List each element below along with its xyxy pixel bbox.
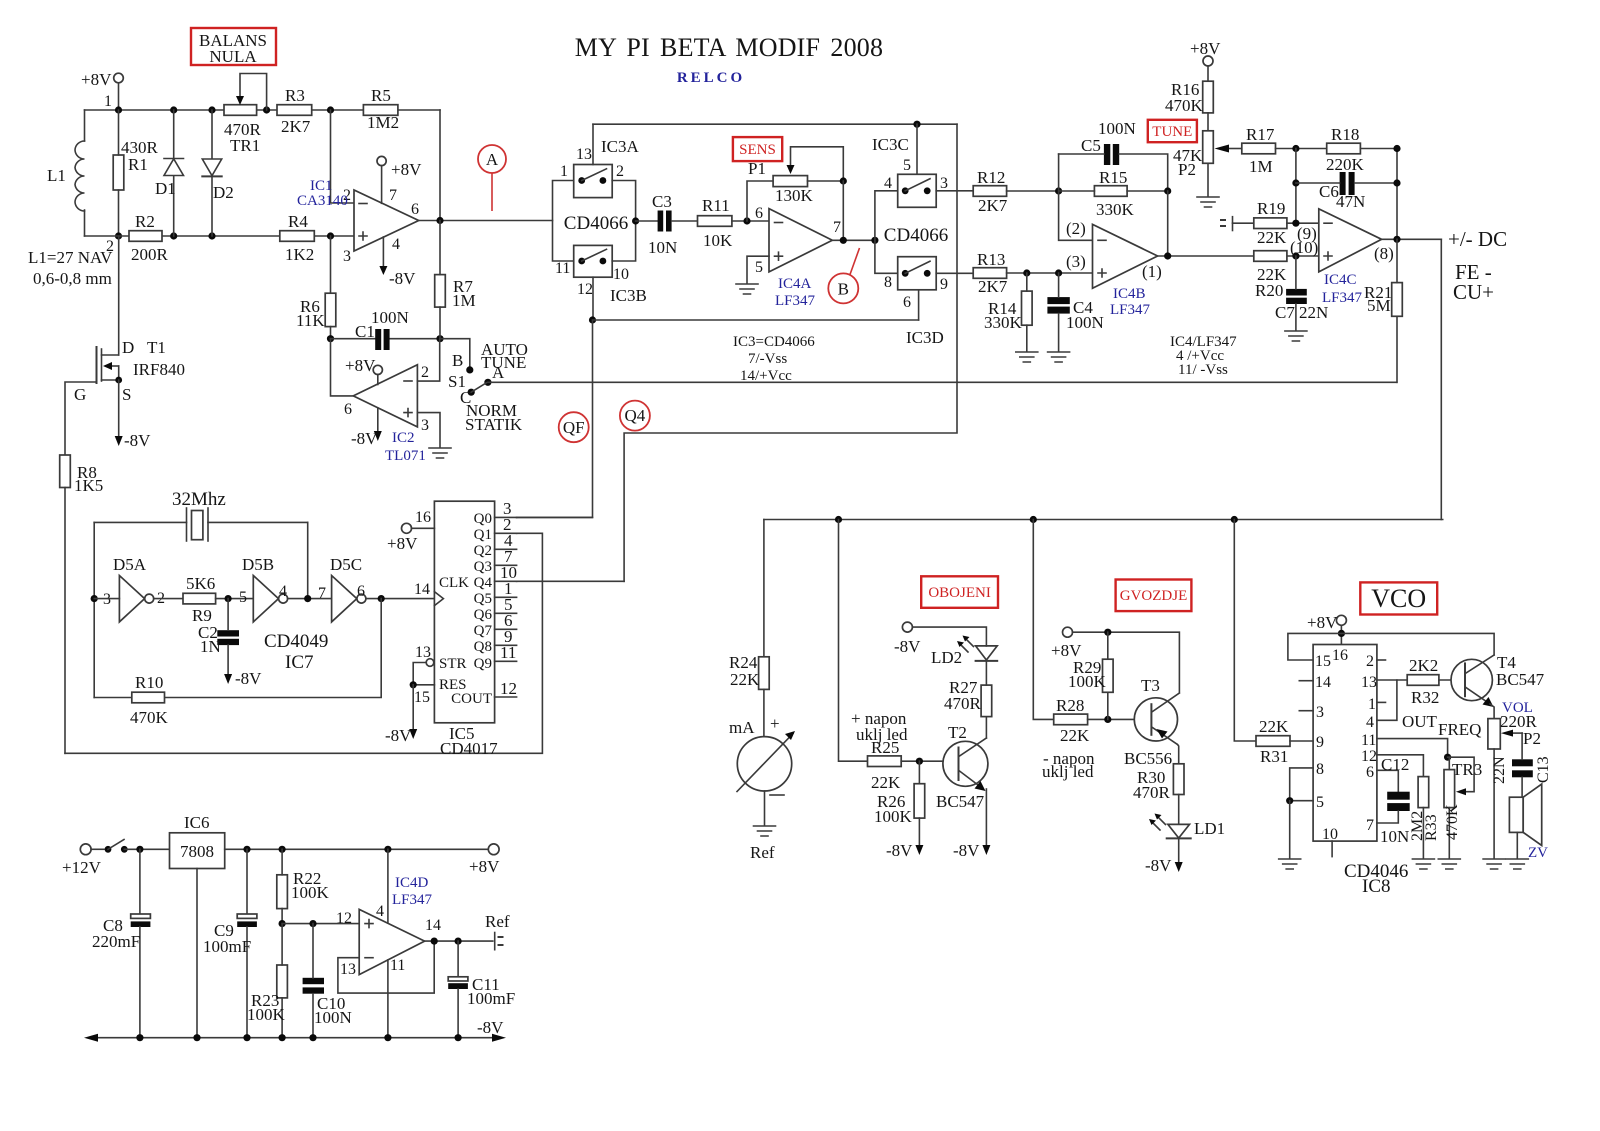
D5A out wire	[154, 598, 183, 600]
junction top bus at IC3C pin5	[913, 121, 920, 128]
wire node2 row y=236	[85, 235, 355, 237]
svg-text:STATIK: STATIK	[465, 415, 523, 434]
capacitor C2	[217, 630, 239, 636]
wire to C3	[636, 220, 658, 222]
wire C1 row	[331, 338, 441, 340]
svg-text:R32: R32	[1411, 688, 1439, 707]
junction R10 feedback	[378, 595, 385, 602]
IC2 pin2 wire	[417, 339, 439, 381]
svg-text:2: 2	[421, 364, 429, 381]
wire crystal right drop	[307, 522, 309, 598]
svg-text:220mF: 220mF	[92, 932, 140, 951]
svg-text:IC8: IC8	[1362, 876, 1391, 897]
svg-text:22K: 22K	[1259, 717, 1289, 736]
svg-text:100N: 100N	[1098, 119, 1136, 138]
svg-text:1M2: 1M2	[367, 113, 399, 132]
wire P1 to IC4A output	[842, 181, 844, 240]
IC1 +8V supply	[377, 156, 386, 165]
svg-text:12: 12	[500, 679, 517, 698]
node B red stem	[850, 248, 860, 275]
svg-text:Q0: Q0	[474, 511, 492, 527]
svg-text:IC1: IC1	[310, 178, 333, 194]
IC4C plus	[1324, 252, 1332, 260]
svg-text:R33: R33	[1423, 814, 1440, 841]
wire IC3 right bracket	[612, 181, 635, 262]
potentiometer P2 (tune)	[1203, 131, 1214, 164]
rail junction pin11	[384, 1034, 391, 1041]
svg-text:22K: 22K	[1060, 726, 1090, 745]
node B circle	[828, 273, 858, 303]
svg-text:220K: 220K	[1326, 155, 1365, 174]
IC5 output pin names	[451, 511, 492, 707]
junction node2 at D2	[208, 232, 215, 239]
junction feedback/output	[431, 938, 438, 945]
wire Q0 control bus y=320	[593, 319, 919, 321]
svg-text:SENS: SENS	[739, 142, 776, 158]
IC5 output stubs	[495, 517, 517, 697]
junction R15/C5 right	[1164, 187, 1171, 194]
svg-text:470R: 470R	[1133, 783, 1171, 802]
svg-text:4: 4	[884, 175, 892, 192]
junction R4/pin3/R6	[327, 232, 334, 239]
R27 to LED	[985, 661, 987, 685]
svg-text:CD4049: CD4049	[264, 631, 328, 652]
svg-text:1K2: 1K2	[285, 245, 314, 264]
svg-text:CA3140: CA3140	[297, 193, 348, 209]
svg-text:-8V: -8V	[351, 429, 378, 448]
svg-text:R28: R28	[1056, 696, 1084, 715]
svg-text:10N: 10N	[1380, 827, 1409, 846]
svg-text:470K: 470K	[130, 708, 169, 727]
wire R28 to base	[1088, 718, 1151, 720]
svg-text:IC4D: IC4D	[395, 875, 429, 891]
IC4D output wire	[425, 940, 493, 942]
svg-text:TR3: TR3	[1452, 760, 1482, 779]
svg-text:Ref: Ref	[750, 843, 775, 862]
junction GVOZDJE branch	[1030, 516, 1037, 523]
+8V terminal gvozdje	[1063, 627, 1073, 637]
svg-text:12: 12	[1361, 748, 1377, 765]
svg-text:15: 15	[1315, 653, 1331, 670]
svg-text:uklj led: uklj led	[1042, 762, 1094, 781]
svg-text:100mF: 100mF	[467, 989, 515, 1008]
wire +8V to pin15	[1288, 633, 1342, 660]
svg-text:2K2: 2K2	[1409, 656, 1438, 675]
svg-text:Q9: Q9	[474, 656, 492, 672]
junction R28/R29/base	[1104, 716, 1111, 723]
junction C4 tap	[1055, 269, 1062, 276]
svg-text:11: 11	[500, 643, 516, 662]
svg-text:9: 9	[940, 276, 948, 293]
svg-text:RES: RES	[439, 677, 467, 693]
ground below C7	[1285, 331, 1307, 341]
svg-text:5M: 5M	[1367, 296, 1391, 315]
wire main lower bus y=519.5	[764, 519, 1443, 521]
wire top control bus y=124	[593, 123, 957, 125]
svg-text:100N: 100N	[314, 1008, 352, 1027]
wire right frame down (Q4 net)	[624, 124, 957, 581]
junction pin10/C7	[1292, 252, 1299, 259]
resistor R12	[973, 186, 1006, 197]
svg-text:15: 15	[414, 689, 430, 706]
svg-text:+8V: +8V	[391, 160, 422, 179]
svg-text:22K: 22K	[1257, 228, 1287, 247]
C5 wires	[1059, 154, 1168, 191]
pin13 wire to R32	[1377, 679, 1407, 681]
svg-text:IC6: IC6	[184, 813, 210, 832]
svg-text:IC3=CD4066: IC3=CD4066	[733, 334, 815, 350]
svg-text:LD2: LD2	[931, 648, 962, 667]
svg-text:6: 6	[755, 205, 763, 222]
power switch	[91, 840, 128, 853]
capacitor C5	[1104, 144, 1110, 165]
TR3 wiper loop	[1448, 757, 1475, 792]
IC5 +8V terminal	[402, 523, 412, 533]
junction +8V node	[1338, 630, 1345, 637]
svg-text:Q4: Q4	[474, 575, 493, 591]
wire R32 to T4 base	[1439, 679, 1464, 681]
IC4C output wire	[1382, 238, 1442, 240]
ground below R14	[1016, 352, 1038, 362]
wire GVOZDJE branch down	[1033, 520, 1053, 720]
svg-text:13: 13	[576, 146, 592, 163]
svg-text:+8V: +8V	[469, 857, 500, 876]
svg-text:D1: D1	[155, 179, 176, 198]
resistor R6	[325, 293, 336, 326]
svg-text:6: 6	[344, 401, 352, 418]
IC2 -8V	[377, 408, 379, 433]
C2 to -8V arrow	[224, 674, 232, 684]
svg-text:MY PI BETA MODIF 2008: MY PI BETA MODIF 2008	[575, 33, 883, 62]
svg-text:100K: 100K	[247, 1005, 286, 1024]
svg-text:LD1: LD1	[1194, 819, 1225, 838]
svg-text:22N: 22N	[1491, 756, 1508, 784]
svg-text:+/- DC: +/- DC	[1448, 227, 1507, 251]
junction C8	[136, 846, 143, 853]
svg-text:+8V: +8V	[1307, 613, 1338, 632]
node A red stem	[491, 173, 493, 211]
rail junction C10	[309, 1034, 316, 1041]
svg-text:R12: R12	[977, 168, 1005, 187]
svg-text:5: 5	[1316, 794, 1324, 811]
svg-text:8: 8	[884, 274, 892, 291]
op-amp IC1	[354, 190, 419, 251]
IC4D plus	[365, 920, 373, 928]
VOL wiper	[1511, 732, 1522, 734]
svg-text:OUT: OUT	[1402, 712, 1438, 731]
svg-text:Q7: Q7	[474, 623, 493, 639]
svg-text:12: 12	[577, 281, 593, 298]
wire top rail y=110	[85, 109, 441, 111]
junction D5A input	[91, 595, 98, 602]
svg-text:(1): (1)	[1142, 262, 1162, 281]
svg-text:-8V: -8V	[886, 841, 913, 860]
IC5 STR pin	[426, 659, 434, 667]
junction output node	[436, 217, 443, 224]
capacitor C4	[1047, 297, 1069, 304]
resistor R5	[363, 105, 398, 116]
svg-text:R20: R20	[1255, 281, 1283, 300]
svg-text:uklj led: uklj led	[856, 725, 908, 744]
resistor R31	[1256, 736, 1290, 747]
7808 ground leg	[196, 869, 198, 1038]
svg-text:L1=27 NAV: L1=27 NAV	[28, 248, 113, 267]
svg-text:C3: C3	[652, 192, 672, 211]
svg-text:12: 12	[336, 910, 352, 927]
junction C6 right	[1393, 179, 1400, 186]
junction output/R21	[1393, 236, 1400, 243]
regulator IC6 7808	[170, 833, 225, 869]
svg-text:R11: R11	[702, 196, 730, 215]
svg-text:IRF840: IRF840	[133, 360, 185, 379]
capacitor C1	[375, 329, 381, 350]
capacitor C3	[658, 211, 664, 232]
P2 ground	[1207, 163, 1209, 196]
IC8 CD4046 box	[1313, 645, 1377, 842]
wire R24 to meter	[763, 689, 765, 736]
node A circle	[478, 145, 506, 173]
svg-text:4: 4	[1366, 714, 1374, 731]
svg-text:TL071: TL071	[385, 448, 426, 464]
svg-text:FREQ: FREQ	[1438, 720, 1481, 739]
capacitor C6	[1340, 172, 1346, 195]
IC3B pin12 wire down	[592, 277, 594, 320]
svg-text:2: 2	[1366, 653, 1374, 670]
pin11 FREQ wire	[1377, 739, 1448, 758]
svg-text:10: 10	[1322, 826, 1338, 843]
junction top rail at R1	[115, 106, 122, 113]
wire IC4B inverting node vertical	[1059, 154, 1093, 240]
junction OBOJENI branch	[835, 516, 842, 523]
wire Q1 to T1 gate chain	[65, 533, 542, 753]
IC1 plus sign	[359, 232, 367, 240]
meter mA	[737, 731, 795, 792]
pin12 wire to R33	[1377, 755, 1424, 777]
ground at IC4A pin5	[736, 284, 758, 294]
svg-text:COUT: COUT	[451, 691, 492, 707]
rail junction C11	[455, 1034, 462, 1041]
wire D5C out to CLK	[366, 598, 435, 600]
junction IC4D pin4	[384, 846, 391, 853]
svg-text:LF347: LF347	[775, 293, 816, 309]
pot bottom to ground	[1493, 749, 1495, 858]
op-amp IC4A	[769, 209, 832, 272]
wire pin2 from node R3/R5 down	[331, 110, 355, 203]
svg-text:C13: C13	[1535, 756, 1552, 783]
svg-text:IC4C: IC4C	[1324, 272, 1357, 288]
rail junction C9	[243, 1034, 250, 1041]
IC8 stub pin14	[1299, 680, 1313, 682]
LD1 to -8V	[1178, 838, 1180, 864]
junction R14 tap	[1023, 269, 1030, 276]
svg-text:Q4: Q4	[625, 406, 646, 425]
wire S1-A long net to R21	[488, 381, 1397, 383]
wire C1 node to S1 B contact	[440, 339, 470, 367]
inductor L1	[75, 110, 85, 236]
IC2 minus sign	[404, 380, 412, 382]
svg-text:9: 9	[1316, 734, 1324, 751]
svg-text:CD4066: CD4066	[884, 225, 948, 246]
wire node2 down to T1 drain	[118, 236, 120, 355]
resistor R23	[277, 965, 288, 998]
resistor R17	[1242, 143, 1276, 154]
D5A input wire	[94, 598, 119, 600]
capacitor C10	[303, 978, 324, 984]
transistor T4 BC547	[1451, 655, 1494, 707]
svg-text:D5B: D5B	[242, 555, 274, 574]
rail junction R23	[279, 1034, 286, 1041]
junction output/feedback	[1164, 252, 1171, 259]
IC5 CD4017 box	[434, 501, 494, 723]
svg-text:RELCO: RELCO	[677, 70, 745, 86]
+8V terminal tune chain	[1203, 56, 1213, 66]
inverter D5C	[332, 576, 357, 622]
svg-text:-8V: -8V	[385, 726, 412, 745]
svg-text:3: 3	[940, 175, 948, 192]
inverter D5B	[253, 576, 278, 622]
wire R31 branch	[1234, 520, 1256, 742]
IC4D feedback loop pin13	[338, 941, 434, 993]
svg-text:10N: 10N	[648, 238, 677, 257]
svg-text:1: 1	[1368, 696, 1376, 713]
svg-text:R19: R19	[1257, 199, 1285, 218]
junction pin6/P1	[743, 217, 750, 224]
resistor R30	[1173, 764, 1184, 795]
wire R25 to base	[901, 760, 957, 762]
resistor R21	[1392, 283, 1403, 317]
svg-text:T3: T3	[1141, 676, 1160, 695]
svg-text:6: 6	[1366, 764, 1374, 781]
junction output/bracket	[871, 237, 878, 244]
wire R13 to IC4B plus	[1007, 272, 1093, 274]
IC3D pin9 wire to R13	[936, 272, 973, 274]
wire C3 to R11	[672, 220, 698, 222]
junction R3/R5/pin2	[327, 106, 334, 113]
svg-text:VCO: VCO	[1371, 584, 1426, 613]
resistor R3	[277, 105, 312, 116]
svg-text:B: B	[838, 279, 849, 298]
svg-text:Q1: Q1	[474, 527, 492, 543]
IC5 pin numbers	[500, 499, 517, 698]
svg-text:32Mhz: 32Mhz	[172, 489, 226, 510]
svg-text:1K5: 1K5	[74, 476, 103, 495]
red label box SENS	[733, 137, 782, 161]
resistor R27	[981, 685, 992, 717]
op-amp IC2 (points left)	[353, 365, 417, 427]
potentiometer VOL 220R	[1488, 719, 1500, 749]
svg-text:100K: 100K	[291, 883, 330, 902]
LED LD2	[957, 636, 997, 661]
svg-text:11/ -Vss: 11/ -Vss	[1178, 362, 1228, 378]
IC5 CLK input triangle	[434, 592, 443, 606]
svg-text:+12V: +12V	[62, 858, 102, 877]
wire D5B out	[288, 598, 332, 600]
chassis symbol at R19	[1221, 217, 1254, 231]
svg-text:11K: 11K	[296, 311, 325, 330]
wire R31 to pin9	[1290, 740, 1313, 742]
IC4D pin4 supply wire	[387, 849, 389, 923]
svg-text:G: G	[74, 385, 86, 404]
svg-text:100N: 100N	[1066, 313, 1104, 332]
svg-text:100N: 100N	[371, 308, 409, 327]
ground at IC2 pin3	[429, 448, 451, 458]
svg-text:LF347: LF347	[1110, 302, 1151, 318]
svg-text:13: 13	[415, 644, 431, 661]
wire meter branch	[763, 520, 765, 657]
IC4A minus	[775, 222, 783, 224]
IC2 output wire to C1 node	[331, 339, 354, 396]
svg-text:BC547: BC547	[1496, 670, 1545, 689]
T2 collector wire	[985, 717, 987, 738]
svg-text:22K: 22K	[871, 773, 901, 792]
svg-text:5: 5	[239, 589, 247, 606]
wire OBOJENI branch down	[839, 520, 868, 762]
oscillator frame left vertical	[93, 522, 95, 697]
trimmer TR3	[1444, 770, 1455, 808]
svg-text:IC4A: IC4A	[778, 276, 812, 292]
svg-text:CD4066: CD4066	[564, 213, 628, 234]
wire feedback to output	[1167, 191, 1169, 256]
svg-text:TUNE: TUNE	[1152, 124, 1192, 140]
wire R6 bottom to C1 node	[330, 327, 332, 339]
svg-text:Q8: Q8	[474, 639, 492, 655]
svg-text:R13: R13	[977, 250, 1005, 269]
switch IC3D	[898, 257, 937, 290]
svg-text:STR: STR	[439, 656, 467, 672]
svg-text:C5: C5	[1081, 136, 1101, 155]
resistor R8	[60, 455, 71, 488]
svg-text:1: 1	[104, 93, 112, 110]
wire Q4 riser	[517, 580, 625, 582]
svg-text:2K7: 2K7	[978, 196, 1008, 215]
wire IC4A output	[832, 239, 875, 241]
svg-text:LF347: LF347	[392, 892, 433, 908]
pin5 to ground	[1289, 801, 1291, 858]
svg-text:130K: 130K	[775, 186, 814, 205]
IC2 +8V	[373, 365, 382, 374]
IC8 pin10 stub	[1331, 841, 1333, 857]
wire +8V to T4 collector	[1341, 633, 1494, 655]
T4 emitter to VOL pot	[1490, 704, 1494, 719]
wire R5 feedback down to output	[439, 110, 441, 221]
junction C1 left	[327, 335, 334, 342]
wire IC4C inv node vertical	[1295, 149, 1297, 224]
svg-text:-8V: -8V	[124, 431, 151, 450]
wire +8V to top rail	[118, 83, 120, 110]
resistor R22	[277, 875, 288, 909]
capacitor C8 electrolytic	[131, 849, 151, 1037]
svg-text:4: 4	[392, 236, 400, 253]
junction C2 tap	[225, 595, 232, 602]
resistor R19	[1254, 218, 1287, 229]
resistor R26	[914, 784, 925, 818]
junction C10 tap	[309, 920, 316, 927]
wire IC3C pin5 drop	[916, 124, 918, 174]
IC5 RES pin	[413, 684, 434, 686]
svg-text:200R: 200R	[131, 245, 169, 264]
wire R10 frame	[94, 599, 381, 698]
IC2 plus sign	[404, 409, 412, 417]
wire DC output down	[1440, 239, 1442, 519]
red label box GVOZDJE	[1116, 580, 1192, 612]
switch S1	[466, 366, 491, 396]
inverter D5A	[119, 576, 144, 622]
svg-text:IC3D: IC3D	[906, 328, 944, 347]
svg-text:14: 14	[425, 917, 441, 934]
svg-text:+8V: +8V	[1190, 39, 1221, 58]
junction R18 right	[1393, 145, 1400, 152]
+8V terminal VCO	[1336, 615, 1346, 625]
